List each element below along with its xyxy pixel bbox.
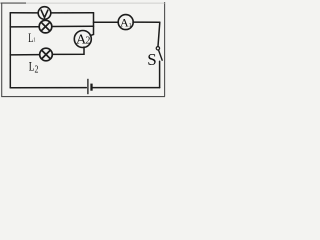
wire: right vertical lower from switch [159,61,161,87]
lamp L1 [39,20,52,33]
wire: left vertical [9,13,11,88]
wire: A1 to right vertical [133,21,160,23]
switch S [156,47,162,61]
svg-text:A2: A2 [76,33,90,48]
lamp L2 [40,48,53,61]
wire: L2 row right + up to A2 bottom [52,47,84,54]
wire: right vertical upper to switch [158,22,160,46]
wire: top row to voltmeter [10,12,38,14]
wire: A1 branch left segment [94,21,119,23]
wire: bottom right to battery [93,87,160,89]
voltmeter V [38,7,51,20]
wire: L1 row right [52,25,94,27]
wire: L1 row left [10,26,39,28]
wire: voltmeter to mid vertical [51,12,94,14]
ammeter A1 [118,15,133,30]
wire: battery to bottom left [10,87,86,89]
wire: L2 row left [10,54,39,56]
svg-text:S: S [147,50,156,69]
ammeter A2 [74,31,91,48]
battery cell [88,79,92,94]
wire: mid vertical junction down to A2 [90,13,93,36]
